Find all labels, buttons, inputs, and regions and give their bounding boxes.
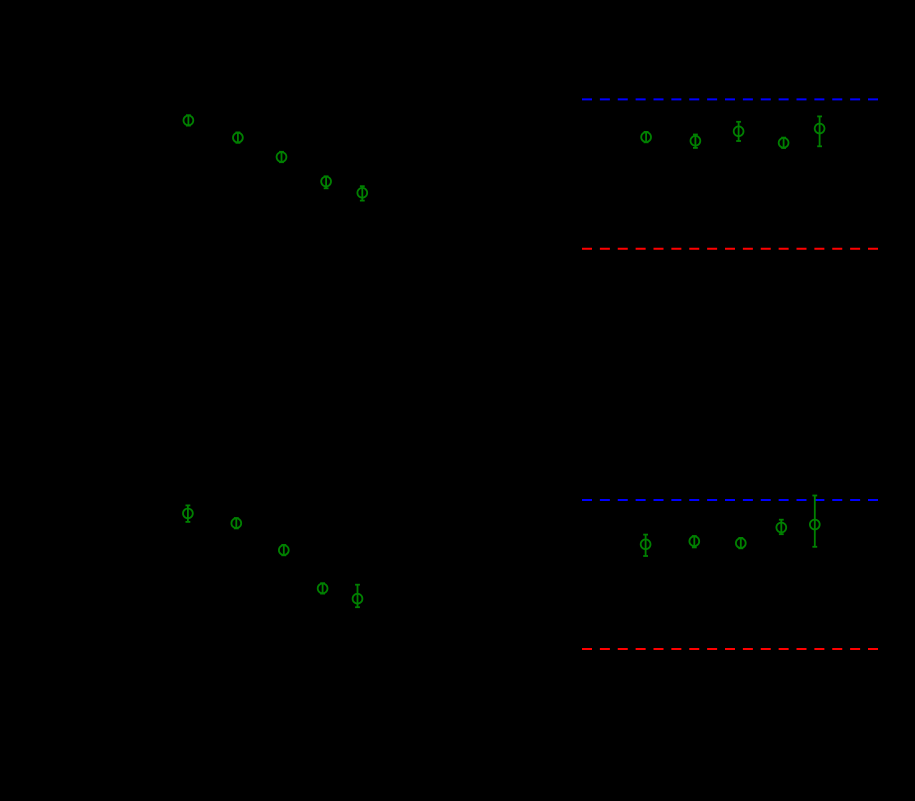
errorbar data point BR1: green open circle with error bar: [641, 535, 651, 556]
errorbar data point TR4: green open circle with error bar: [779, 138, 789, 148]
errorbar data point BR5: green open circle with error bar: [810, 496, 820, 547]
errorbar data point TL1: green open circle with error bar: [184, 115, 194, 125]
red dashed lower-limit line, top-right panel: [582, 248, 878, 250]
errorbar data point BR2: green open circle with error bar: [689, 536, 699, 547]
errorbar data point TR2: green open circle with error bar: [691, 135, 701, 148]
errorbar data point TL4: green open circle with error bar: [321, 176, 331, 188]
blue dashed upper-limit line, top-right panel: [582, 98, 878, 100]
blue dashed upper-limit line, bottom-right panel: [582, 499, 878, 501]
errorbar data point BL1: green open circle with error bar: [183, 505, 193, 522]
errorbar data point BL2: green open circle with error bar: [231, 518, 241, 528]
red dashed lower-limit line, bottom-right panel: [582, 648, 878, 650]
errorbar data point TL2: green open circle with error bar: [233, 132, 243, 142]
errorbar data point BL3: green open circle with error bar: [279, 545, 289, 555]
errorbar data point BL5: green open circle with error bar: [353, 585, 363, 608]
errorbar data point TR1: green open circle with error bar: [641, 132, 651, 142]
errorbar data point BR3: green open circle with error bar: [736, 538, 746, 548]
errorbar data point TL3: green open circle with error bar: [277, 152, 287, 162]
errorbar data point TR5: green open circle with error bar: [815, 116, 825, 146]
errorbar data point BL4: green open circle with error bar: [318, 583, 328, 593]
errorbar data point BR4: green open circle with error bar: [776, 520, 786, 535]
errorbar data point TL5: green open circle with error bar: [357, 186, 367, 200]
errorbar data point TR3: green open circle with error bar: [734, 122, 744, 141]
